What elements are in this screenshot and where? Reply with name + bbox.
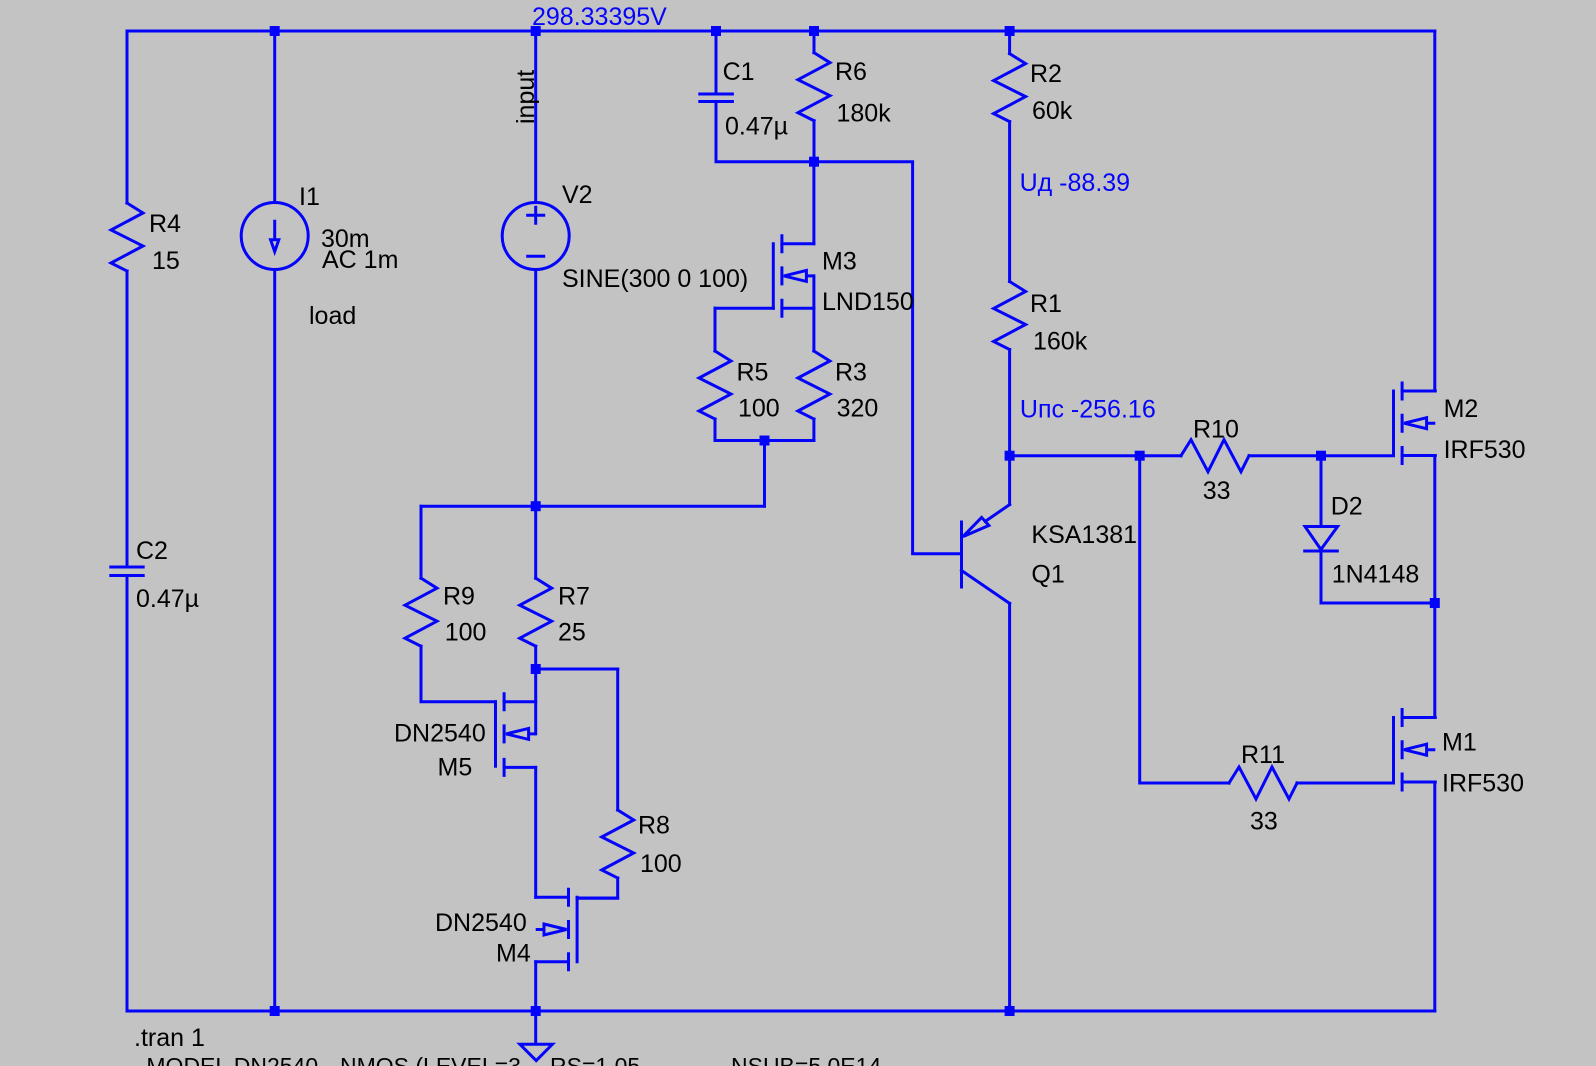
resistor R3 [798, 351, 830, 419]
svg-text:DN2540: DN2540 [394, 720, 486, 748]
wire I1 top lead [273, 31, 276, 203]
wire R6 bottom lead [813, 121, 816, 162]
wire M3 gate lead [715, 307, 773, 310]
wire R1 node to R11 node [1010, 454, 1140, 457]
svg-text:load: load [309, 302, 356, 330]
junction at C1/R6 node [809, 157, 819, 167]
svg-text:0.47µ: 0.47µ [136, 585, 199, 613]
svg-text:SINE(300 0 100): SINE(300 0 100) [562, 265, 748, 293]
M1 source lead [1402, 781, 1435, 784]
svg-text:Uд -88.39: Uд -88.39 [1020, 169, 1130, 197]
wire M2 source trunk down [1433, 456, 1436, 718]
svg-text:I1: I1 [299, 183, 320, 211]
svg-text:AC 1m: AC 1m [322, 246, 398, 274]
svg-text:R11: R11 [1241, 741, 1285, 769]
svg-text:1N4148: 1N4148 [1332, 561, 1420, 589]
M2 channel bars [1401, 383, 1404, 464]
diode D2 triangle [1305, 527, 1338, 550]
svg-text:LND150: LND150 [822, 288, 914, 316]
svg-text:33: 33 [1250, 808, 1278, 836]
wire R3 bottom lead [812, 419, 815, 441]
svg-text:R5: R5 [737, 358, 769, 386]
M3 gate bar [772, 244, 775, 309]
svg-text:Q1: Q1 [1031, 560, 1064, 588]
wire M5 top trunk [534, 669, 537, 734]
wire to M2 gate [1321, 454, 1394, 457]
wire R2 top lead [1008, 31, 1011, 54]
resistor R1 [994, 282, 1026, 350]
M4 source lead [536, 960, 569, 963]
wire top supply rail [127, 30, 1435, 33]
M3 source lead [782, 307, 814, 310]
resistor R7 [520, 578, 552, 646]
wire R7 top lead [534, 506, 537, 578]
svg-text:RS=1.05: RS=1.05 [550, 1053, 640, 1066]
wire to R10 [1140, 454, 1181, 457]
svg-text:R8: R8 [638, 812, 670, 840]
resistor R11 [1229, 767, 1297, 799]
junction at Q1 collector bottom [1005, 1006, 1015, 1016]
svg-text:DN2540: DN2540 [435, 909, 527, 937]
wire V2 top lead [534, 31, 537, 203]
svg-text:D2: D2 [1331, 493, 1363, 521]
I1 arrow [271, 220, 279, 252]
svg-text:M4: M4 [496, 940, 531, 968]
wire R9 bottom lead to M5 gate [421, 646, 496, 702]
M3 channel bars [780, 236, 783, 317]
svg-text:IRF530: IRF530 [1444, 436, 1526, 464]
M5 channel bars [503, 694, 506, 776]
junction at V2/R7 node [531, 501, 541, 511]
svg-text:15: 15 [152, 247, 180, 275]
wire R11 branch down [1140, 456, 1229, 783]
wire D2 top lead [1320, 456, 1323, 527]
M4 drain lead [536, 896, 569, 899]
junction at R5/R3 bottom [760, 436, 770, 446]
M1 gate bar [1392, 718, 1395, 783]
M5 gate bar [494, 702, 497, 767]
Q1 body bar [960, 522, 963, 587]
resistor R10 [1181, 440, 1249, 472]
wire node to Q1 base [814, 162, 962, 554]
svg-text:M5: M5 [438, 754, 473, 782]
svg-text:R6: R6 [835, 58, 867, 86]
wire R7 bottom lead [534, 646, 537, 669]
Q1 emitter arrow [963, 517, 989, 536]
svg-text:M2: M2 [1444, 395, 1479, 423]
wire bottom ground rail [127, 1010, 1435, 1013]
svg-text:60k: 60k [1032, 97, 1073, 125]
junction at I1 top [270, 26, 280, 36]
wire R8 bottom lead to M4 gate [577, 878, 618, 898]
wire R2 to R1 [1008, 122, 1011, 282]
junction at R6 top [809, 26, 819, 36]
svg-text:33: 33 [1203, 477, 1231, 505]
junction at R11 branch [1135, 451, 1145, 461]
resistor R6 [798, 53, 830, 121]
wire Q1 collector to rail [1008, 603, 1011, 1011]
wire C2 to bottom rail [126, 577, 129, 1011]
M4 gate bar [576, 897, 579, 962]
wire D2 bottom lead [1321, 553, 1435, 604]
svg-text:C2: C2 [136, 537, 168, 565]
svg-text:NMOS (LEVEL=3: NMOS (LEVEL=3 [340, 1053, 521, 1066]
wire C1 bottom lead [716, 103, 814, 162]
wire R5 top lead [714, 308, 717, 351]
wire R1 bottom lead [1008, 350, 1011, 456]
wire R5 bottom lead [714, 419, 717, 441]
svg-text:25: 25 [558, 619, 586, 647]
capacitor C2 [111, 567, 143, 576]
M1 channel bars [1401, 710, 1404, 791]
svg-text:100: 100 [445, 619, 487, 647]
svg-text:298.33395V: 298.33395V [532, 3, 667, 31]
M2 drain lead [1402, 390, 1435, 393]
junction at R7 bottom [531, 664, 541, 674]
svg-text:R4: R4 [149, 210, 181, 238]
M3 bulk arrow [784, 270, 814, 281]
svg-text:R1: R1 [1030, 290, 1062, 318]
resistor R4 [111, 203, 143, 271]
M1 bulk arrow [1404, 744, 1435, 755]
wire M3 drain trunk [812, 162, 815, 244]
wire R5/R3 bottom bar [715, 439, 814, 442]
resistor R8 [602, 810, 634, 878]
svg-text:100: 100 [640, 850, 682, 878]
wire left branch upper [126, 31, 129, 203]
svg-text:.MODEL DN2540: .MODEL DN2540 [140, 1053, 318, 1066]
voltage source V2 circle [502, 203, 569, 270]
junction at D2/M2 source node [1430, 598, 1440, 608]
M3 drain lead [782, 242, 814, 245]
wire M4 gate lead [577, 897, 618, 900]
junction at R1 bottom node [1005, 451, 1015, 461]
svg-text:NSUB=5.0E14: NSUB=5.0E14 [731, 1053, 881, 1066]
svg-text:Uпс -256.16: Uпс -256.16 [1020, 396, 1156, 424]
M4 bulk arrow [536, 924, 567, 935]
junction at D2 top [1316, 451, 1326, 461]
wire M3 source trunk to R3 [812, 276, 815, 351]
wire R7 node to R8 [536, 668, 618, 671]
M5 top lead [504, 700, 536, 703]
svg-text:R10: R10 [1193, 416, 1239, 444]
wire M1 source trunk to rail [1433, 782, 1436, 1011]
M2 source lead [1402, 454, 1435, 457]
M5 bottom lead [504, 766, 536, 769]
svg-text:R3: R3 [835, 358, 867, 386]
junction at C1 top [711, 26, 721, 36]
wire C1 top lead [715, 31, 718, 93]
wire right trunk to M2 drain [1433, 31, 1436, 391]
wire R9 top lead [420, 506, 423, 578]
junction at V2 top [531, 26, 541, 36]
wire M4 source trunk to rail [534, 962, 537, 1011]
svg-text:C1: C1 [723, 58, 755, 86]
wire R4 to C2 [126, 271, 129, 566]
svg-text:input: input [512, 70, 540, 124]
current source I1 circle [241, 203, 308, 270]
wire R11 to M1 gate [1297, 782, 1394, 785]
resistor R9 [405, 578, 437, 646]
junction at ground node [531, 1006, 541, 1016]
M2 bulk arrow [1404, 418, 1435, 429]
svg-text:0.47µ: 0.47µ [725, 113, 788, 141]
M1 drain lead [1402, 716, 1435, 719]
svg-text:100: 100 [738, 395, 780, 423]
svg-text:180k: 180k [837, 100, 892, 128]
svg-text:R7: R7 [558, 582, 590, 610]
svg-text:V2: V2 [562, 181, 593, 209]
junction at I1 bottom [270, 1006, 280, 1016]
D2 cathode bar [1305, 550, 1338, 553]
Q1 collector diagonal [962, 571, 1010, 604]
wire I1 bottom lead [273, 270, 276, 1012]
wire R8 top lead [616, 669, 619, 810]
ground symbol [534, 1011, 537, 1043]
svg-text:.tran 1: .tran 1 [134, 1024, 205, 1052]
wire R10 to D2 node [1249, 454, 1321, 457]
wire middle horizontal node [421, 505, 765, 508]
wire R6 top lead [813, 31, 816, 53]
V2 plus sign [528, 207, 544, 223]
svg-text:M1: M1 [1442, 729, 1477, 757]
wire Q1 emitter lead [1008, 456, 1011, 505]
wire V2 bottom lead [534, 270, 537, 507]
junction at R2 top [1005, 26, 1015, 36]
resistor R2 [994, 54, 1026, 122]
svg-text:320: 320 [837, 395, 879, 423]
resistor R5 [699, 351, 731, 419]
V2 minus sign [528, 255, 544, 258]
svg-text:IRF530: IRF530 [1442, 770, 1524, 798]
M2 gate bar [1392, 391, 1395, 456]
svg-text:KSA1381: KSA1381 [1031, 521, 1137, 549]
svg-text:160k: 160k [1033, 328, 1088, 356]
svg-text:R2: R2 [1030, 60, 1062, 88]
Q1 emitter diagonal [985, 505, 1009, 522]
svg-text:R9: R9 [443, 582, 475, 610]
M4 channel bars [567, 889, 570, 970]
M5 bulk arrow [506, 728, 536, 739]
capacitor C1 [700, 94, 733, 102]
wire M5 source trunk down [534, 767, 537, 897]
wire down from R5/R3 node [763, 441, 766, 507]
svg-text:M3: M3 [822, 248, 857, 276]
